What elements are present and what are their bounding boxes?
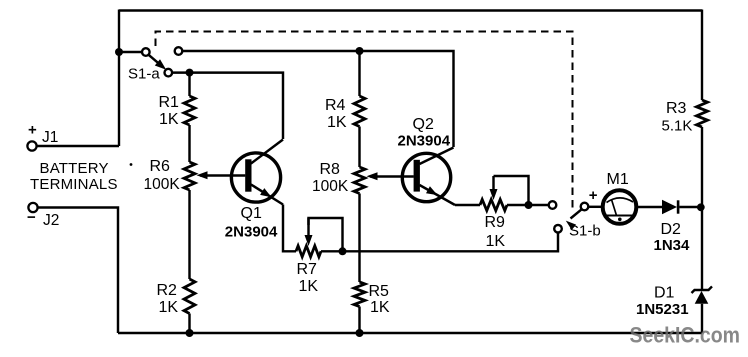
wire: R7 right end to junction bbox=[321, 250, 343, 252]
svg-text:2N3904: 2N3904 bbox=[398, 133, 451, 150]
switch S1-a bbox=[142, 48, 150, 56]
svg-text:M1: M1 bbox=[607, 171, 629, 188]
wire: S1-a pole to node A (R1 top / Q1 collector) bbox=[172, 71, 190, 73]
svg-text:100K: 100K bbox=[144, 176, 181, 193]
wire: Q2 emitter to R9 bbox=[455, 204, 480, 206]
svg-text:Q2: Q2 bbox=[413, 116, 434, 133]
wire: Q1 emitter down to R7 bbox=[283, 205, 296, 252]
resistor R2 bbox=[184, 279, 195, 314]
svg-text:D2: D2 bbox=[661, 221, 682, 238]
svg-text:R1: R1 bbox=[159, 94, 180, 111]
potentiometer R7 bbox=[296, 246, 321, 257]
svg-text:BATTERY: BATTERY bbox=[40, 160, 109, 177]
wire: S1-a throw B to R4 top and Q2 collector bbox=[182, 51, 453, 147]
wire: R5 to bottom rail bbox=[358, 307, 360, 334]
svg-text:1K: 1K bbox=[327, 114, 347, 131]
zener diode D1 bbox=[692, 286, 713, 303]
wire: R9 node to S1-b throw contact bbox=[529, 204, 550, 206]
meter M1 bbox=[603, 190, 637, 224]
svg-text:S1-a: S1-a bbox=[128, 66, 160, 83]
svg-text:1K: 1K bbox=[486, 233, 506, 250]
junction: D2/right bus bbox=[697, 203, 705, 211]
wire: junction to S1-a common bbox=[119, 51, 142, 53]
svg-text:TERMINALS: TERMINALS bbox=[30, 176, 118, 193]
wire: J2 to bottom bus bbox=[38, 208, 118, 334]
potentiometer R9 bbox=[480, 200, 507, 211]
terminal J2 bbox=[28, 203, 37, 212]
wire: J1 to left bus bbox=[37, 145, 119, 147]
svg-text:R9: R9 bbox=[485, 214, 506, 231]
svg-text:1N34: 1N34 bbox=[654, 237, 691, 254]
wire: D1 to bottom rail bbox=[701, 304, 703, 333]
svg-text:1K: 1K bbox=[159, 111, 179, 128]
junction: R5 bottom at bottom rail bbox=[356, 329, 364, 337]
wire: D2 to right bus bbox=[679, 206, 702, 208]
svg-text:R8: R8 bbox=[320, 161, 341, 178]
mechanical linkage (dashed) S1-a to S1-b bbox=[156, 32, 573, 212]
wire: M1 to D2 bbox=[636, 206, 662, 208]
svg-text:1K: 1K bbox=[159, 299, 179, 316]
svg-text:J1: J1 bbox=[42, 129, 58, 146]
svg-text:Q1: Q1 bbox=[241, 205, 262, 222]
diode D2 bbox=[662, 200, 677, 214]
wire: right bus (top rail down to R3) bbox=[701, 10, 703, 101]
svg-text:1N5231: 1N5231 bbox=[636, 301, 689, 318]
wire: R4 top down from rail bbox=[358, 51, 360, 96]
junction: R2 bottom at bottom rail bbox=[186, 329, 194, 337]
svg-text:+: + bbox=[589, 187, 598, 204]
svg-text:100K: 100K bbox=[312, 178, 349, 195]
switch S1-b bbox=[549, 201, 557, 209]
junction: R4 top on that wire bbox=[356, 47, 364, 55]
potentiometer R8 bbox=[354, 167, 365, 194]
resistor R4 bbox=[354, 96, 365, 127]
junction: R9 node bbox=[525, 201, 533, 209]
wire: R6 to R2 bbox=[188, 190, 190, 279]
junction: R7 wiper/end node bbox=[339, 247, 347, 255]
resistor R3 bbox=[697, 100, 708, 127]
R9 wiper arm bracket bbox=[494, 176, 529, 205]
svg-text:D1: D1 bbox=[654, 285, 675, 302]
svg-text:J2: J2 bbox=[43, 212, 59, 229]
junction: battery + to switch S1-a bbox=[115, 48, 123, 56]
transistor Q2 bbox=[402, 148, 455, 206]
svg-text:R7: R7 bbox=[297, 261, 318, 278]
wire: Q1 base to R6 wiper (arrow) bbox=[200, 174, 245, 176]
svg-text:S1-b: S1-b bbox=[569, 222, 601, 239]
wire: S1-b to meter M1 bbox=[588, 206, 603, 208]
svg-text:2N3904: 2N3904 bbox=[225, 224, 278, 241]
wire: Q2 base to R8 wiper (arrow) bbox=[370, 175, 414, 177]
wire: R8 down to R5 (crosses emitter wire) bbox=[358, 194, 360, 283]
svg-text:R4: R4 bbox=[325, 97, 346, 114]
transistor Q1 bbox=[231, 140, 283, 205]
wire: node A right toward Q1 collector bbox=[190, 73, 284, 139]
svg-text:R5: R5 bbox=[369, 283, 390, 300]
R7 wiper arm bracket bbox=[309, 218, 343, 251]
svg-text:R2: R2 bbox=[157, 282, 178, 299]
svg-text:5.1K: 5.1K bbox=[662, 118, 693, 135]
svg-text:1K: 1K bbox=[299, 278, 319, 295]
wire: R4 to R8 bbox=[358, 127, 360, 168]
wire: R2 to bottom rail bbox=[188, 314, 190, 334]
stray print dot bbox=[130, 163, 133, 166]
wire: R9 right end to junction bbox=[507, 204, 529, 206]
border/top rail wire bbox=[119, 9, 702, 11]
svg-text:+: + bbox=[28, 122, 37, 139]
junction node A bbox=[186, 69, 194, 77]
potentiometer R6 bbox=[184, 162, 195, 190]
terminal J1 bbox=[27, 141, 36, 150]
wire: R7 node to S1-b pole bbox=[343, 232, 559, 251]
resistor R5 bbox=[354, 282, 365, 307]
wire: left bus from J1 up to top rail bbox=[118, 10, 120, 147]
bottom rail wire bbox=[118, 332, 702, 334]
svg-text:R3: R3 bbox=[666, 100, 687, 117]
wire: R3 to D2 junction to zener D1 bbox=[701, 127, 703, 290]
resistor R1 bbox=[184, 96, 195, 125]
svg-text:SeekIC.com: SeekIC.com bbox=[630, 323, 741, 348]
svg-text:R6: R6 bbox=[150, 158, 171, 175]
wire: node A down to R1 bbox=[188, 73, 190, 96]
wire: R1 to R6 bbox=[188, 125, 190, 162]
svg-text:1K: 1K bbox=[370, 299, 390, 316]
svg-text:−: − bbox=[27, 209, 36, 226]
